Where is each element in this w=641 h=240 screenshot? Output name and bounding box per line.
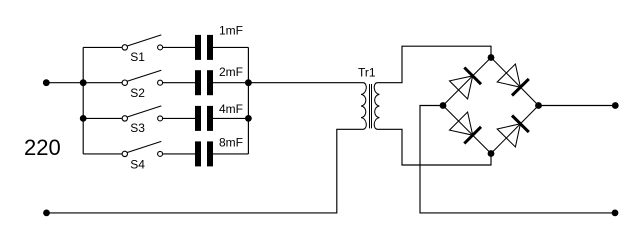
wire row4 mid bbox=[163, 153, 195, 155]
capacitor 8mF bbox=[195, 135, 243, 166]
wire bridge left node to output bottom bbox=[420, 106, 615, 213]
wire row4 left bbox=[83, 153, 122, 155]
wire bottom return to transformer bbox=[47, 129, 364, 213]
node junction right bus row2 bbox=[245, 79, 252, 86]
switch S2 bbox=[122, 70, 163, 100]
wire secondary bottom to bridge bottom node bbox=[377, 129, 491, 165]
wire row3 mid bbox=[163, 117, 195, 119]
wire row4 right bbox=[213, 153, 248, 155]
svg-text:S1: S1 bbox=[130, 50, 145, 64]
node bridge left bbox=[440, 102, 447, 109]
wire row2 left bbox=[83, 82, 122, 84]
svg-text:2mF: 2mF bbox=[219, 65, 243, 79]
switch S3 bbox=[122, 106, 163, 135]
node bridge bottom bbox=[488, 150, 495, 157]
svg-text:S3: S3 bbox=[130, 121, 145, 135]
node output bottom terminal bbox=[612, 210, 619, 217]
switch S4 bbox=[122, 141, 163, 171]
core bbox=[369, 84, 371, 128]
transformer Tr1 bbox=[358, 65, 379, 129]
wire row1 left bbox=[83, 46, 122, 48]
wire bridge diamond edges bbox=[443, 58, 539, 154]
svg-text:Tr1: Tr1 bbox=[358, 65, 376, 79]
primary winding bbox=[361, 83, 366, 130]
svg-text:S4: S4 bbox=[130, 157, 145, 171]
node junction right bus row3 bbox=[245, 115, 252, 122]
svg-text:220: 220 bbox=[24, 135, 61, 160]
diode D3 bottom-left bbox=[450, 112, 482, 144]
secondary winding bbox=[374, 83, 379, 130]
wire right bus to transformer primary top bbox=[248, 82, 363, 84]
diode D1 top-left bbox=[450, 68, 482, 100]
node input bottom terminal bbox=[43, 210, 50, 217]
wire left bus vertical bbox=[82, 47, 84, 153]
wire input top to left bus bbox=[46, 82, 83, 84]
wire secondary top to bridge top node bbox=[377, 46, 491, 82]
wire row1 right bbox=[213, 46, 248, 48]
node junction left bus row3 bbox=[80, 115, 87, 122]
node bridge top bbox=[488, 54, 495, 61]
svg-text:4mF: 4mF bbox=[219, 102, 243, 116]
node bridge right bbox=[535, 102, 542, 109]
wire right bus vertical bbox=[247, 47, 249, 153]
svg-text:S2: S2 bbox=[130, 86, 145, 100]
diode D4 bottom-right bbox=[497, 116, 529, 148]
capacitor 2mF bbox=[195, 65, 243, 95]
wire row1 mid bbox=[163, 46, 195, 48]
svg-text:1mF: 1mF bbox=[219, 23, 243, 37]
node junction left bus row2 bbox=[80, 79, 87, 86]
wire row3 right bbox=[213, 117, 248, 119]
svg-text:8mF: 8mF bbox=[219, 135, 243, 149]
wire bridge right node to output top bbox=[539, 105, 616, 107]
capacitor 1mF bbox=[195, 23, 243, 60]
capacitor 4mF bbox=[195, 102, 243, 131]
node output top terminal bbox=[612, 102, 619, 109]
wire row2 right bbox=[213, 82, 248, 84]
diode D2 top-right bbox=[497, 64, 529, 96]
wire row3 left bbox=[83, 117, 122, 119]
switch S1 bbox=[122, 35, 163, 64]
node input top terminal bbox=[43, 79, 50, 86]
wire row2 mid bbox=[163, 82, 195, 84]
